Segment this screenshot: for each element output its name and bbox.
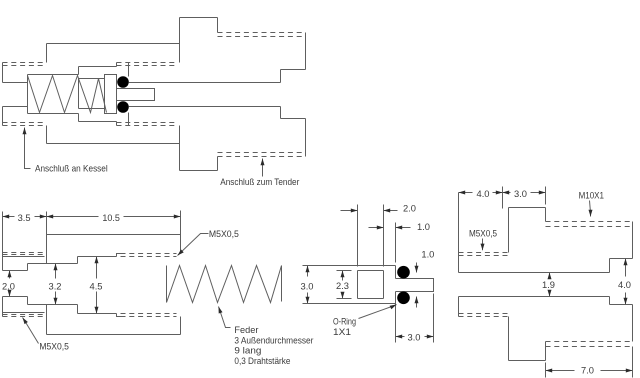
dimension 2.0 arrows xyxy=(9,271,11,279)
collar top edge xyxy=(180,17,218,19)
svg-text:O-Ring: O-Ring xyxy=(333,316,356,327)
svg-text:M5X0,5: M5X0,5 xyxy=(469,228,497,239)
piston stem detail xyxy=(396,279,434,292)
o-ring bottom (assembly) xyxy=(117,101,129,113)
svg-text:2.0: 2.0 xyxy=(2,281,15,292)
wire: body left face xyxy=(46,44,48,144)
wire: tender bore 2.0 lines xyxy=(129,83,281,107)
svg-text:1.9: 1.9 xyxy=(542,280,555,291)
wire: detail stub thread rows top xyxy=(3,253,45,255)
label leader M5X0,5 rp xyxy=(482,239,484,251)
wire: detail bore 2.0 xyxy=(3,271,28,297)
wire: detail stub thread rows bottom xyxy=(3,315,45,317)
wire: rp top dim extensions xyxy=(503,187,546,209)
svg-text:1X1: 1X1 xyxy=(333,327,351,338)
svg-text:1.0: 1.0 xyxy=(421,249,434,260)
piston groove rect 2.3 xyxy=(358,271,384,299)
o-ring bottom (detail) xyxy=(397,292,410,305)
svg-text:Anschluß an Kessel: Anschluß an Kessel xyxy=(35,164,108,175)
wire: end bore 4.0 xyxy=(281,70,306,119)
collar bottom edge xyxy=(180,170,218,172)
piston tail 2.3 xyxy=(79,79,105,109)
svg-text:3.5: 3.5 xyxy=(18,213,31,224)
svg-text:2.0: 2.0 xyxy=(403,203,416,214)
rp collar left face xyxy=(508,208,510,361)
rp collar top xyxy=(509,207,546,209)
wire: bore 4.5 lines xyxy=(79,67,117,122)
dimension 2.0 piston xyxy=(341,210,358,212)
rp collar right face xyxy=(545,208,547,361)
piston stem xyxy=(117,89,155,101)
dimension 3.0 spring xyxy=(307,266,309,277)
wire: internal thread dashes right section xyxy=(117,63,177,66)
wire: body right end face xyxy=(179,44,181,144)
label leader O-Ring xyxy=(359,305,397,319)
label leader M5X0,5 lower xyxy=(23,318,39,344)
wire: detail stub left face + extension xyxy=(2,212,4,317)
wire: 2.3 extension lines xyxy=(337,271,352,299)
wire: step bore3.2 to bore4.5 xyxy=(78,67,80,122)
svg-text:M5X0,5: M5X0,5 xyxy=(209,229,239,240)
dimension 4.0 top xyxy=(459,192,503,194)
svg-text:Anschluß zum Tender: Anschluß zum Tender xyxy=(220,177,299,188)
collar tender left face xyxy=(179,18,181,171)
dimension 1.0 flange xyxy=(369,227,384,229)
svg-text:4.0: 4.0 xyxy=(477,189,490,200)
o-ring top (detail) xyxy=(397,266,410,279)
wire: rp M10 dashes xyxy=(546,222,633,227)
wire: left connector stub left end face xyxy=(2,63,4,126)
o-ring top (assembly) xyxy=(117,76,129,88)
spring assembly xyxy=(28,76,107,113)
wire: body outer bottom xyxy=(47,143,180,145)
wire: detail body left face xyxy=(46,212,48,335)
svg-text:4.0: 4.0 xyxy=(618,280,631,291)
wire: detail body bottom xyxy=(47,334,181,336)
svg-text:7.0: 7.0 xyxy=(581,366,594,377)
spring feder detail xyxy=(167,266,282,303)
dimension 4.5 arrows xyxy=(96,257,98,279)
label leader: Anschluss zum Tender xyxy=(262,159,264,177)
label leader M10X1 xyxy=(590,201,591,217)
wire: rp right end face xyxy=(632,222,634,342)
dimension 7.0 bottom xyxy=(546,347,633,378)
wire: detail internal thread dashes xyxy=(121,254,177,257)
label leader M5X0,5 upper xyxy=(178,234,209,256)
svg-text:0,3 Drahtstärke: 0,3 Drahtstärke xyxy=(234,356,290,367)
label leader: Anschluss an Kessel xyxy=(25,128,31,169)
wire: detail step to 4.5 xyxy=(77,257,79,314)
svg-text:M5X0,5: M5X0,5 xyxy=(39,341,69,352)
wire: detail step to 3.2 xyxy=(27,264,29,305)
svg-text:10.5: 10.5 xyxy=(102,213,120,224)
wire: left stub thread dashes top xyxy=(3,63,45,66)
svg-text:2.3: 2.3 xyxy=(336,281,349,292)
collar right face xyxy=(217,18,219,171)
wire: step bore2 to bore3.2 xyxy=(27,75,29,114)
wire: tender stub end face xyxy=(128,63,130,126)
wire: detail bore 3.2 xyxy=(28,264,78,305)
svg-text:1.0: 1.0 xyxy=(417,222,430,233)
dimension 4.0 right arrows xyxy=(625,259,627,277)
wire: rp bore 1.9 xyxy=(459,273,610,297)
wire: rp stub left face + extension xyxy=(458,193,460,317)
wire: left stub thread dashes bottom xyxy=(3,123,45,126)
dimension 3.5 xyxy=(3,216,47,218)
wire: M10 thread dashes assembly xyxy=(218,33,306,37)
wire: bore 2.0 lines left part xyxy=(3,83,28,107)
wire: detail thread jog xyxy=(117,254,121,317)
wire: rp stub thread rows bottom xyxy=(459,314,509,317)
svg-text:3.0: 3.0 xyxy=(408,333,421,344)
wire: right end face xyxy=(305,33,307,157)
dimension 10.5 xyxy=(47,216,181,218)
wire: body outer top xyxy=(47,43,180,45)
wire: rp end bore 4.0 xyxy=(610,259,633,305)
svg-text:3.2: 3.2 xyxy=(49,281,62,292)
rp collar bottom xyxy=(509,360,546,362)
svg-text:M10X1: M10X1 xyxy=(579,191,604,202)
wire: thread jog at x115 xyxy=(116,63,118,126)
wire: detail body top xyxy=(47,234,181,236)
piston flange right face xyxy=(395,266,397,304)
dimension 1.0 o-ring arrows xyxy=(416,263,418,273)
svg-text:3.0: 3.0 xyxy=(301,281,314,292)
dimension 3.2 arrows xyxy=(55,264,57,279)
dimension 3.0 top xyxy=(503,192,546,194)
svg-text:3.0: 3.0 xyxy=(514,189,527,200)
svg-text:Feder: Feder xyxy=(234,325,258,336)
dimension 3.0 stem xyxy=(396,294,434,343)
wire: rp stub thread rows top xyxy=(459,253,509,256)
wire: detail bore 4.5 xyxy=(78,257,117,314)
wire: extension lines up xyxy=(358,205,396,267)
piston disc 3.0 xyxy=(105,75,117,114)
piston outline detail xyxy=(303,266,396,304)
wire: detail right end face + extension xyxy=(180,211,182,335)
svg-text:4.5: 4.5 xyxy=(90,281,103,292)
label leader Feder xyxy=(219,307,231,328)
dimension 1.9 arrows xyxy=(549,273,551,278)
dimension 2.3 arrows xyxy=(342,271,344,281)
wire: bore 3.2 lines xyxy=(28,75,79,114)
